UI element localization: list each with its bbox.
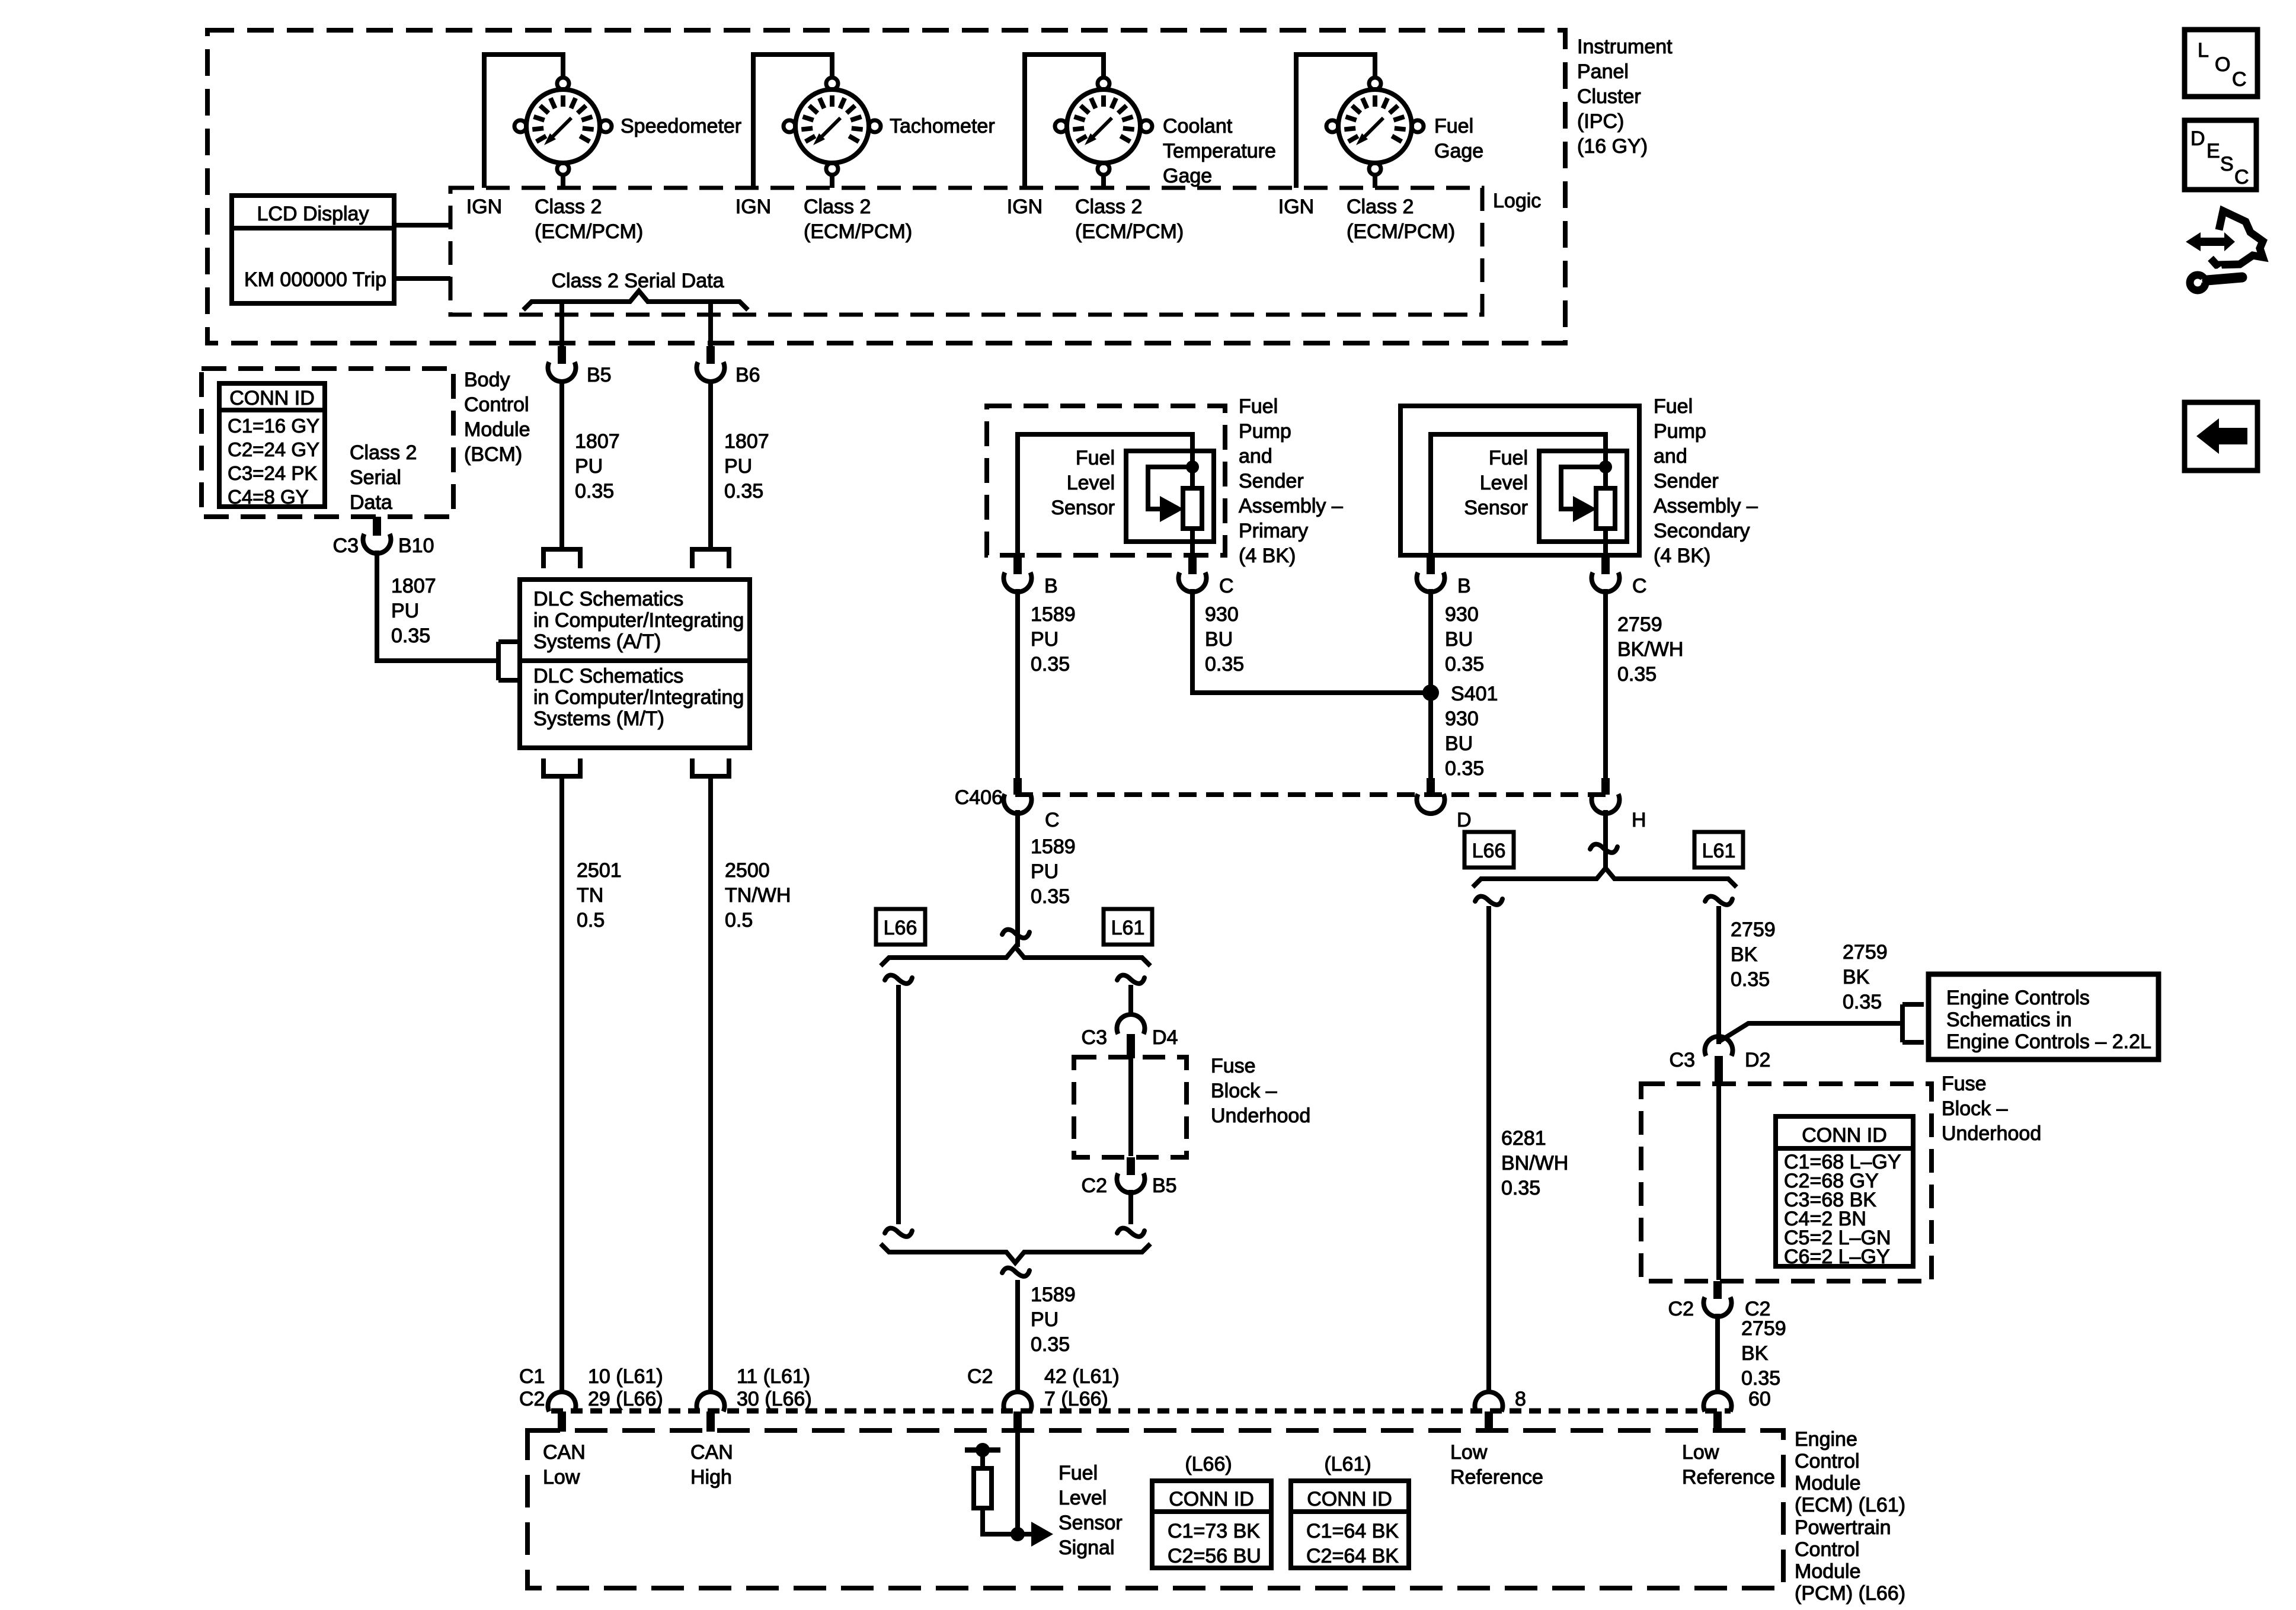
svg-text:C: C [2232,68,2247,91]
CONN ID box (L66) [1152,1481,1271,1568]
label wire 930 BU 0.35 (below S401) [1445,708,1484,780]
svg-text:L61: L61 [1111,917,1145,939]
label wire 930 BU 0.35 (primary) [1205,603,1244,676]
svg-text:Assembly –: Assembly – [1654,495,1758,517]
svg-text:L: L [2198,39,2209,62]
svg-text:Module: Module [1795,1560,1861,1583]
label Instrument Panel Cluster (IPC) (16 GY) [1577,36,1673,158]
brace Class 2 Serial Data [523,291,748,310]
svg-text:Fuel: Fuel [1654,395,1693,418]
svg-text:BK: BK [1731,943,1758,966]
svg-text:0.35: 0.35 [1031,885,1070,908]
wire through fuse block (center) [1128,1058,1133,1156]
label Tachometer [890,115,995,137]
svg-text:C3: C3 [1670,1049,1695,1071]
svg-text:PU: PU [724,455,752,478]
wire below fuse block (center) [1128,1190,1133,1224]
Fuel Pump and Sender Assembly Secondary box [1400,406,1639,555]
svg-text:(ECM/PCM): (ECM/PCM) [1347,220,1455,243]
label wire 6281 BN/WH 0.35 [1501,1127,1568,1199]
label IGN (Speedometer) [466,196,502,218]
svg-text:Sender: Sender [1239,470,1304,492]
fuel level sensor (secondary) potentiometer [1431,434,1627,573]
labels fuse block connector IDs [1784,1151,1901,1268]
label pin 10 (L61) 29 (L66) [588,1365,663,1410]
svg-text:1807: 1807 [391,575,436,597]
svg-text:DLC Schematics: DLC Schematics [533,665,683,687]
svg-text:Coolant: Coolant [1163,115,1233,137]
svg-text:High: High [690,1466,732,1489]
label CAN High [690,1441,733,1489]
option brace (center top) [881,947,1150,966]
wire Class 2 input Coolant Temperature Gage [1101,174,1106,188]
label Powertrain Control Module (PCM) (L66) [1795,1516,1905,1605]
svg-text:Fuel: Fuel [1434,115,1473,137]
svg-text:(16 GY): (16 GY) [1577,135,1648,158]
svg-text:Schematics in: Schematics in [1946,1009,2072,1031]
svg-text:in Computer/Integrating: in Computer/Integrating [533,609,744,632]
label Class 2 (ECM/PCM) (Fuel Gage) [1347,196,1455,243]
svg-text:Logic: Logic [1493,190,1541,212]
wire Class 2 input Speedometer [561,174,565,188]
svg-text:BU: BU [1205,628,1233,651]
svg-text:Control: Control [464,393,529,416]
svg-text:(PCM) (L66): (PCM) (L66) [1795,1582,1905,1605]
svg-text:Block –: Block – [1211,1080,1277,1102]
label wire 2759 BK 0.35 (to ECM) [1741,1317,1786,1390]
svg-text:2759: 2759 [1741,1317,1786,1340]
svg-text:Module: Module [464,418,530,441]
svg-text:(BCM): (BCM) [464,443,522,466]
svg-text:0.35: 0.35 [724,480,763,502]
label D4 [1152,1026,1178,1049]
label C3 (BCM pin) [333,534,359,557]
wire LCD to Logic (lower) [394,276,450,281]
gauge Speedometer [514,78,612,175]
svg-text:Gage: Gage [1163,165,1212,187]
connector pin C (secondary) [1592,556,1620,592]
label CONN ID (L61) [1307,1488,1392,1510]
svg-text:C2=64 BK: C2=64 BK [1306,1545,1399,1567]
svg-text:C: C [1219,575,1234,597]
connector pin C406-D [1417,778,1445,814]
svg-text:Systems (M/T): Systems (M/T) [533,708,664,730]
svg-text:L61: L61 [1702,840,1736,862]
svg-text:CONN ID: CONN ID [229,387,315,409]
svg-text:10 (L61): 10 (L61) [588,1365,663,1388]
Fuse Block Underhood dashed box (right) [1641,1084,1932,1281]
label Class 2 Serial Data (BCM) [350,441,417,514]
connector pin C406-H [1592,778,1620,814]
Fuel Pump and Sender Assembly Primary dashed box [987,406,1225,555]
svg-text:Engine Controls – 2.2L: Engine Controls – 2.2L [1946,1030,2151,1053]
label pin 42 (L61) 7 (L66) [1044,1365,1120,1410]
label Speedometer [621,115,741,137]
bracket to DLC Schematics [498,642,520,680]
label Fuse Block Underhood (right) [1942,1073,2041,1145]
svg-text:Level: Level [1067,472,1115,494]
label D (C406) [1457,809,1472,831]
wire IGN input Tachometer [753,55,832,188]
connector pin 60 (ECM) [1704,1392,1732,1432]
wire Class 2 input Fuel Gage [1373,174,1377,188]
label Fuel Pump and Sender Assembly Secondary (4 BK) [1654,395,1758,567]
option label box L66 (right) [1464,832,1514,868]
svg-text:Fuel: Fuel [1059,1462,1098,1484]
svg-text:C406: C406 [955,786,1003,809]
svg-text:(L61): (L61) [1324,1453,1371,1475]
label B6 [736,364,760,386]
wire 1807 PU from BCM to DLC [377,550,498,661]
svg-text:Sensor: Sensor [1051,497,1115,519]
wire Class 2 serial to B5 [559,302,564,346]
svg-text:Module: Module [1795,1472,1861,1494]
svg-text:DLC Schematics: DLC Schematics [533,588,683,610]
svg-text:Sensor: Sensor [1464,497,1528,519]
svg-text:Secondary: Secondary [1654,520,1750,542]
wire B5 to DLC [559,379,564,549]
svg-text:CAN: CAN [543,1441,586,1464]
connector pin C3/D4 (fuse block) [1117,1014,1144,1058]
svg-text:Pump: Pump [1239,420,1291,443]
label pin 60 [1748,1388,1771,1410]
svg-text:0.35: 0.35 [575,480,614,502]
svg-text:CONN ID: CONN ID [1169,1488,1254,1510]
label C406 [955,786,1003,809]
svg-text:BU: BU [1445,628,1473,651]
label CONN ID (L66) [1169,1488,1254,1510]
svg-text:L66: L66 [884,917,917,939]
wire IGN input Fuel Gage [1296,55,1375,188]
label B (secondary) [1457,575,1471,597]
svg-text:0.5: 0.5 [577,909,605,932]
option brace (center bottom) [881,1244,1150,1263]
wire 930 BU secondary B through S401 [1428,589,1433,779]
option brace (right) [1473,868,1737,887]
svg-text:Pump: Pump [1654,420,1706,443]
pull-up supply bar (ECM internal) [965,1443,1000,1457]
label C (primary) [1219,575,1234,597]
svg-text:C2=56 BU: C2=56 BU [1168,1545,1261,1567]
svg-text:0.35: 0.35 [1445,757,1484,780]
svg-text:IGN: IGN [1007,196,1043,218]
label wire 1589 PU 0.35 (to ECM) [1031,1283,1076,1356]
svg-text:IGN: IGN [466,196,502,218]
svg-text:Engine: Engine [1795,1428,1857,1451]
wire Class 2 input Tachometer [830,174,834,188]
wire IGN input Speedometer [484,55,563,188]
label Coolant Temperature Gage [1163,115,1276,187]
label pin C2 (fuel level) [967,1365,993,1388]
svg-text:Fuel: Fuel [1076,447,1115,469]
option label box L61 (right) [1694,832,1743,868]
wire break L61 branch bottom [1117,1228,1144,1237]
label C (secondary) [1632,575,1647,597]
label Fuel Level Sensor Signal [1059,1462,1123,1559]
svg-text:2500: 2500 [725,859,770,882]
svg-text:0.35: 0.35 [1617,663,1657,686]
svg-text:B6: B6 [736,364,760,386]
svg-text:Block –: Block – [1942,1097,2008,1120]
svg-text:1589: 1589 [1031,603,1076,626]
wire 1589 PU primary B to C406 [1015,589,1020,779]
wire CAN High 2500 TN/WH [708,776,713,1394]
svg-text:Powertrain: Powertrain [1795,1516,1891,1539]
gauge Coolant Temperature Gage [1055,78,1152,175]
svg-text:1807: 1807 [724,430,769,453]
wire 2759 BK branch to engine controls [1719,1023,1901,1042]
svg-text:D: D [2191,127,2205,150]
wire 1589 PU to ECM pin 42 [1015,1280,1020,1394]
connector pin C (primary) [1178,556,1206,592]
svg-text:B5: B5 [1152,1174,1177,1197]
label B5 [587,364,612,386]
connector pin CAN High (ECM) [697,1392,725,1432]
bracket above DLC (right) [692,549,729,568]
label wire 1807 PU 0.35 (B5) [575,430,620,502]
svg-text:C: C [2234,166,2249,188]
svg-text:(ECM/PCM): (ECM/PCM) [1075,220,1184,243]
icon LOC box [2185,30,2257,97]
svg-text:1807: 1807 [575,430,620,453]
svg-text:Serial: Serial [350,466,401,489]
connector pin B (secondary) [1417,556,1445,592]
connector pin C2/B5 (fuse block) [1117,1157,1144,1193]
wire break L61 right branch [1705,897,1732,905]
label Class 2 (ECM/PCM) (Speedometer) [535,196,643,243]
connector pin C2/C2 [1704,1281,1732,1317]
svg-text:0.35: 0.35 [1031,653,1070,676]
label IGN (Fuel Gage) [1278,196,1314,218]
bracket to Engine Controls [1902,1004,1924,1042]
svg-text:Reference: Reference [1682,1466,1775,1489]
svg-text:C: C [1045,809,1060,831]
svg-text:0.35: 0.35 [1501,1177,1540,1199]
svg-text:C3: C3 [333,534,359,557]
label DLC Schematics M/T [533,665,744,730]
svg-text:C1=64 BK: C1=64 BK [1306,1520,1399,1542]
wire 930 BU primary C to S401 [1192,589,1423,693]
bracket below DLC (left) [543,758,580,776]
label Fuel Level Sensor (secondary) [1464,447,1528,519]
wire B6 to DLC [708,379,713,549]
CONN ID box (BCM) [219,383,325,507]
svg-text:TN: TN [577,884,603,907]
connector pin CAN Low (ECM) [548,1392,576,1432]
ECM connector row dotted line [551,1409,1731,1414]
svg-text:Fuel: Fuel [1239,395,1278,418]
label wire 1807 PU 0.35 (BCM) [391,575,436,647]
svg-text:O: O [2215,53,2230,76]
Fuse Block Underhood dashed box (center) [1074,1057,1187,1157]
svg-text:0.35: 0.35 [1843,991,1882,1013]
svg-text:B: B [1044,575,1058,597]
svg-text:C4=8 GY: C4=8 GY [228,486,309,508]
option label box L66 (center) [876,909,925,945]
svg-text:Instrument: Instrument [1577,36,1673,58]
svg-text:Class 2: Class 2 [535,196,602,218]
wire LCD to Logic (upper) [394,223,450,228]
bracket above DLC (left) [543,549,580,568]
label Low Reference (pin 60) [1682,1441,1775,1489]
wire break L66 right branch [1475,897,1502,905]
label pins C1 C2 (CAN Low) [519,1365,545,1410]
labels L66 connector IDs [1168,1520,1261,1567]
option label box L61 (center) [1104,909,1152,945]
svg-text:S401: S401 [1451,683,1498,705]
svg-text:8: 8 [1515,1388,1526,1410]
svg-text:6281: 6281 [1501,1127,1546,1150]
label wire 1589 PU 0.35 (primary) [1031,603,1076,676]
svg-text:Panel: Panel [1577,60,1629,83]
label C3 (right fuse block) [1670,1049,1695,1071]
svg-text:C6=2 L–GY: C6=2 L–GY [1784,1246,1890,1268]
label Class 2 (ECM/PCM) (Coolant Temperature Gage) [1075,196,1184,243]
svg-text:Low: Low [1450,1441,1488,1464]
label Fuel Gage [1434,115,1483,162]
wire break L66 branch top [885,975,912,984]
label (L61) [1324,1453,1371,1475]
svg-text:BK/WH: BK/WH [1617,638,1683,661]
label wire 2500 TN/WH 0.5 [725,859,791,932]
label S401 [1451,683,1498,705]
signal arrow Fuel Level Sensor Signal [1018,1522,1053,1547]
Engine Controls Schematics box [1929,974,2159,1060]
wire Class 2 serial to B6 [708,302,713,346]
label IGN (Tachometer) [736,196,771,218]
svg-text:2759: 2759 [1617,613,1662,636]
svg-text:B10: B10 [398,534,434,557]
svg-text:0.35: 0.35 [391,625,430,647]
svg-text:in Computer/Integrating: in Computer/Integrating [533,686,744,709]
label D2 [1745,1049,1770,1071]
label Class 2 (ECM/PCM) (Tachometer) [804,196,912,243]
svg-text:2501: 2501 [577,859,622,882]
connector pin C406-C [1003,778,1031,814]
svg-text:D: D [1457,809,1472,831]
svg-text:(4 BK): (4 BK) [1654,545,1710,567]
svg-text:CAN: CAN [690,1441,733,1464]
svg-text:2759: 2759 [1731,918,1776,941]
label wire 1589 PU 0.35 (below C406) [1031,836,1076,908]
svg-text:Gage: Gage [1434,140,1483,162]
label Fuel Pump and Sender Assembly Primary (4 BK) [1239,395,1343,567]
svg-text:Reference: Reference [1450,1466,1543,1489]
icon back arrow box [2185,402,2257,470]
connector pin 42/7 (ECM) [1003,1392,1031,1432]
Body Control Module dashed box [202,369,453,517]
svg-text:Low: Low [1682,1441,1719,1464]
svg-text:Temperature: Temperature [1163,140,1276,162]
inline connector C406 dashed line [1015,792,1607,797]
wire 2759 BK/WH secondary C to C406 H [1603,589,1608,779]
svg-text:Assembly –: Assembly – [1239,495,1343,517]
label CONN ID (BCM) [229,387,315,409]
label KM 000000 Trip [244,268,386,291]
svg-text:(ECM) (L61): (ECM) (L61) [1795,1494,1905,1516]
CONN ID box (L61) [1291,1481,1409,1568]
wire break L61 branch top [1117,975,1144,984]
wire L61 branch to fuse block [1128,985,1133,1016]
svg-text:PU: PU [1031,860,1059,883]
svg-text:C2=24 GY: C2=24 GY [228,438,319,460]
label wire 2501 TN 0.5 [577,859,622,932]
label B5 (fuse block bottom) [1152,1174,1177,1197]
svg-text:BU: BU [1445,732,1473,755]
svg-text:Tachometer: Tachometer [890,115,995,137]
svg-text:Body: Body [464,369,510,391]
label B (primary) [1044,575,1058,597]
svg-text:PU: PU [391,600,419,622]
fuel level sensor (primary) potentiometer [1018,434,1214,573]
label CONN ID (right fuse block) [1802,1124,1887,1147]
svg-text:Signal: Signal [1059,1537,1115,1559]
wire CAN Low 2501 TN [559,776,564,1394]
svg-text:Class 2: Class 2 [1075,196,1142,218]
wire through fuse block (right) [1716,1085,1721,1280]
svg-text:0.35: 0.35 [1205,653,1244,676]
svg-text:PU: PU [1031,628,1059,651]
label H (C406) [1632,809,1646,831]
svg-text:Speedometer: Speedometer [621,115,741,137]
svg-text:Class 2: Class 2 [350,441,417,464]
svg-text:Systems (A/T): Systems (A/T) [533,630,661,653]
svg-text:D4: D4 [1152,1026,1178,1049]
svg-text:D2: D2 [1745,1049,1770,1071]
labels L61 connector IDs [1306,1520,1399,1567]
svg-text:C2: C2 [519,1388,545,1410]
label Body Control Module (BCM) [464,369,530,466]
svg-text:930: 930 [1445,708,1479,730]
label LCD Display [257,203,369,225]
label wire 2759 BK 0.35 (above fuse block) [1731,918,1776,991]
svg-text:60: 60 [1748,1388,1771,1410]
wire break below bottom brace [1002,1268,1029,1276]
svg-text:B5: B5 [587,364,612,386]
svg-text:Engine Controls: Engine Controls [1946,987,2090,1009]
svg-text:Level: Level [1059,1487,1107,1509]
label wire 1807 PU 0.35 (B6) [724,430,769,502]
wire break below H [1590,844,1617,853]
svg-text:0.35: 0.35 [1741,1367,1780,1390]
svg-text:CONN ID: CONN ID [1307,1488,1392,1510]
svg-text:Level: Level [1480,472,1528,494]
label DLC Schematics A/T [533,588,744,653]
svg-text:S: S [2220,153,2234,175]
svg-text:C2: C2 [1668,1298,1694,1320]
wire break above option brace [1002,930,1029,938]
svg-text:Control: Control [1795,1538,1860,1561]
label C3 (fuse block top) [1082,1026,1107,1049]
wire 2759 BK to fuse block [1716,906,1721,1044]
svg-text:Class 2: Class 2 [1347,196,1414,218]
pull-up resistor (ECM internal) [974,1450,1018,1534]
svg-text:0.35: 0.35 [1731,968,1770,991]
svg-text:930: 930 [1445,603,1479,626]
svg-text:KM 000000 Trip: KM 000000 Trip [244,268,386,291]
svg-text:(4 BK): (4 BK) [1239,545,1296,567]
label wire 930 BU 0.35 (secondary) [1445,603,1484,676]
bracket below DLC (right) [692,758,729,776]
svg-text:IGN: IGN [1278,196,1314,218]
CONN ID box (right fuse block) [1776,1116,1913,1266]
gauge Tachometer [784,78,881,175]
label pin 11 (L61) 30 (L66) [737,1365,812,1410]
DLC Schematics box [520,580,750,748]
svg-text:Data: Data [350,491,392,514]
svg-text:PU: PU [1031,1308,1059,1331]
icon double arrow with outline [2186,211,2263,265]
